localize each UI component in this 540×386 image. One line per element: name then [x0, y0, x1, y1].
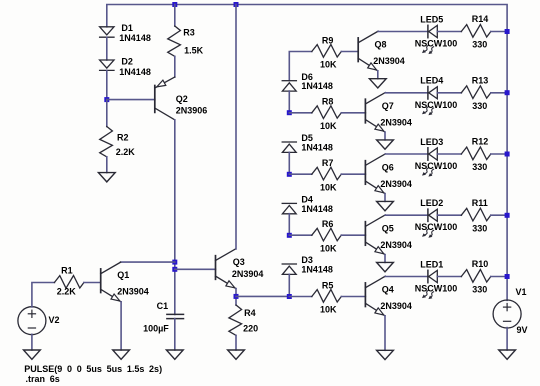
label Q2 value	[176, 106, 208, 116]
label R14	[472, 14, 489, 24]
svg-text:2N3904: 2N3904	[380, 301, 412, 311]
svg-text:R13: R13	[472, 76, 489, 86]
label LED2 value	[415, 222, 458, 232]
svg-text:100µF: 100µF	[143, 324, 169, 334]
label R6	[322, 219, 334, 229]
wire R1 to Q1 base	[84, 282, 101, 284]
svg-text:R3: R3	[183, 28, 195, 38]
label V1	[516, 287, 527, 297]
diode D5	[282, 142, 296, 152]
label R7 value	[320, 182, 337, 192]
svg-text:R9: R9	[322, 35, 334, 45]
label R5	[322, 280, 334, 290]
wire V2 to ground	[31, 334, 33, 350]
ground below Q8	[369, 79, 386, 88]
wire Q2 collector down to C1	[174, 120, 176, 315]
wire LED5 to R14	[437, 31, 461, 33]
svg-text:220: 220	[243, 324, 258, 334]
svg-text:330: 330	[472, 285, 487, 295]
wire Q7 collector to LED4	[385, 92, 428, 94]
svg-text:10K: 10K	[320, 121, 337, 131]
label Q8	[375, 40, 387, 50]
svg-text:330: 330	[472, 162, 487, 172]
wire D1 to D2	[106, 37, 108, 60]
label D4	[301, 195, 313, 205]
label Q8 value	[373, 56, 405, 66]
label R9	[322, 35, 334, 45]
ground below Q6	[377, 201, 394, 210]
svg-text:NSCW100: NSCW100	[415, 100, 458, 110]
node Q1 collector junction	[172, 260, 177, 265]
wire C1 to ground	[174, 319, 176, 350]
label C1	[157, 301, 169, 311]
wire Q1 emitter to ground	[120, 302, 122, 350]
svg-text:2N3904: 2N3904	[380, 117, 412, 127]
wire Q3 emitter to R4	[235, 289, 237, 305]
LED LED2	[422, 209, 437, 238]
wire Q1 collector row	[121, 261, 175, 263]
LED LED1	[422, 270, 437, 299]
wire base row to R7	[289, 173, 312, 175]
transistor Q4	[365, 276, 385, 316]
svg-text:LED3: LED3	[420, 137, 443, 147]
node top rail junction at Q3 collector	[234, 2, 239, 7]
voltage source V1	[493, 300, 521, 328]
resistor R1	[54, 276, 84, 289]
resistor R11	[461, 208, 491, 221]
svg-text:Q7: Q7	[382, 101, 394, 111]
label LED3 value	[415, 161, 458, 171]
label D6	[301, 72, 313, 82]
label Q7 value	[380, 117, 412, 127]
label D5	[301, 133, 313, 143]
resistor R7	[312, 167, 342, 180]
wire Q3 emitter row to diode chain	[236, 295, 289, 297]
wire Q8 emitter to ground	[377, 71, 379, 79]
wire Q5 emitter to ground	[384, 255, 386, 263]
wire Q5 collector to LED2	[385, 214, 428, 216]
diode D6	[282, 81, 296, 91]
label V1 value	[517, 325, 528, 335]
label R11	[472, 198, 488, 208]
label PULSE statement	[24, 364, 162, 374]
label Q1	[117, 270, 129, 280]
node right rail junction LED3 row	[505, 152, 510, 157]
svg-text:330: 330	[472, 223, 487, 233]
label Q5	[382, 223, 394, 233]
svg-text:NSCW100: NSCW100	[415, 39, 458, 49]
resistor R3	[168, 26, 181, 56]
svg-text:330: 330	[472, 40, 487, 50]
resistor R6	[312, 228, 342, 241]
label R12 value	[472, 162, 487, 172]
ground below Q7	[377, 140, 394, 149]
node diode chain junction	[287, 233, 292, 238]
svg-text:R12: R12	[472, 137, 489, 147]
label tran statement	[26, 374, 60, 384]
LED LED5	[422, 25, 437, 54]
svg-text:1N4148: 1N4148	[301, 204, 333, 214]
wire diode chain segment	[288, 91, 290, 113]
label D2	[121, 57, 133, 67]
wire V1 to ground	[506, 328, 508, 350]
LED LED4	[422, 87, 437, 116]
wire Q2 base	[107, 99, 155, 101]
label Q4 value	[380, 301, 412, 311]
label R12	[472, 137, 489, 147]
label D3	[301, 255, 313, 265]
label LED5	[420, 14, 443, 24]
wire Q3 base row	[175, 268, 216, 270]
wire Q3 collector drop	[235, 5, 237, 250]
wire R14 to right rail	[491, 31, 507, 33]
svg-text:Q3: Q3	[233, 257, 245, 267]
svg-text:Q2: Q2	[176, 94, 188, 104]
diode D4	[282, 203, 296, 213]
wire R5 to Q4 base	[341, 296, 365, 298]
node Q3 emitter junction	[234, 294, 239, 299]
wire base row to R8	[289, 112, 312, 114]
svg-text:2N3904: 2N3904	[380, 240, 412, 250]
svg-text:D2: D2	[121, 57, 133, 67]
wire diode chain segment	[288, 214, 290, 236]
label Q3	[233, 257, 245, 267]
label Q1 value	[117, 287, 149, 297]
label V2	[49, 315, 60, 325]
node right rail junction LED4 row	[505, 90, 510, 95]
label Q4	[382, 285, 394, 295]
label D1	[121, 23, 133, 33]
resistor R2	[100, 127, 113, 157]
wire LED3 to R12	[437, 153, 461, 155]
resistor R5	[312, 290, 342, 303]
wire R4 to ground	[235, 335, 237, 350]
svg-text:10K: 10K	[320, 182, 337, 192]
ground below Q4	[377, 350, 394, 359]
svg-text:LED5: LED5	[420, 14, 443, 24]
svg-text:R1: R1	[61, 266, 73, 276]
svg-text:V2: V2	[49, 315, 60, 325]
svg-text:PULSE(9 0 0 5us 5us 1.5s 2s): PULSE(9 0 0 5us 5us 1.5s 2s)	[24, 364, 162, 374]
svg-text:R8: R8	[322, 97, 334, 107]
wire LED1 to R10	[437, 276, 461, 278]
transistor Q3	[216, 249, 237, 289]
transistor Q7	[365, 93, 385, 133]
resistor R13	[461, 86, 491, 99]
transistor Q2	[155, 77, 175, 120]
svg-text:.tran 6s: .tran 6s	[26, 374, 60, 384]
ground below R2	[98, 173, 115, 182]
svg-text:LED2: LED2	[420, 198, 443, 208]
label R9 value	[320, 60, 337, 70]
wire R2 to ground	[106, 157, 108, 173]
ground below Q5	[377, 262, 394, 271]
svg-text:2.2K: 2.2K	[57, 287, 77, 297]
label LED2	[420, 198, 443, 208]
label R5 value	[320, 305, 337, 315]
wire R13 to right rail	[491, 92, 507, 94]
label Q5 value	[380, 240, 412, 250]
wire Q8 collector to LED5	[378, 31, 428, 33]
svg-text:9V: 9V	[517, 325, 528, 335]
svg-text:Q5: Q5	[382, 223, 394, 233]
wire diode chain segment	[288, 152, 290, 174]
svg-text:R6: R6	[322, 219, 334, 229]
label C1 value	[143, 324, 169, 334]
label R4 value	[243, 324, 258, 334]
wire Q4 collector to LED1	[385, 276, 428, 278]
svg-text:2.2K: 2.2K	[116, 147, 136, 157]
label R7	[322, 158, 334, 168]
svg-text:NSCW100: NSCW100	[415, 284, 458, 294]
node Q2 base junction	[104, 97, 109, 102]
resistor R12	[461, 147, 491, 160]
label R11 value	[472, 223, 487, 233]
label LED1 value	[415, 284, 458, 294]
svg-text:330: 330	[472, 101, 487, 111]
label R10 value	[472, 285, 487, 295]
label R10	[472, 259, 489, 269]
wire node to R2	[106, 100, 108, 127]
svg-text:LED4: LED4	[420, 76, 443, 86]
svg-text:10K: 10K	[320, 305, 337, 315]
svg-text:1N4148: 1N4148	[119, 67, 151, 77]
wire R11 to right rail	[491, 214, 507, 216]
label R6 value	[320, 243, 337, 253]
LED LED3	[422, 148, 437, 177]
label LED1	[420, 259, 443, 269]
wire LED4 to R13	[437, 92, 461, 94]
label D2 value	[119, 67, 151, 77]
wire base row to R6	[289, 234, 312, 236]
ground below R4	[228, 350, 245, 359]
svg-text:2N3904: 2N3904	[117, 287, 149, 297]
svg-text:10K: 10K	[320, 243, 337, 253]
label R1 value	[57, 287, 77, 297]
wire R3 to Q2 emitter	[174, 56, 176, 77]
wire top rail to R3	[174, 5, 176, 27]
wire diode chain top segment	[289, 52, 312, 81]
svg-text:2N3904: 2N3904	[373, 56, 405, 66]
wire D2 to Q2 base node	[106, 70, 108, 99]
wire LED2 to R11	[437, 214, 461, 216]
ground below V2	[24, 350, 41, 359]
wire R7 to Q6 base	[341, 173, 365, 175]
label R2	[117, 133, 129, 143]
wire R12 to right rail	[491, 153, 507, 155]
label D6 value	[301, 81, 333, 91]
node diode chain junction	[287, 172, 292, 177]
svg-text:R2: R2	[117, 133, 129, 143]
svg-text:1N4148: 1N4148	[119, 33, 151, 43]
resistor R14	[461, 25, 491, 38]
label R13	[472, 76, 489, 86]
label Q3 value	[232, 269, 264, 279]
svg-text:Q4: Q4	[382, 285, 394, 295]
voltage source V2	[18, 307, 46, 335]
label Q6	[382, 162, 394, 172]
svg-text:10K: 10K	[320, 60, 337, 70]
node Q3 base junction	[172, 267, 177, 272]
node top rail junction at R3	[172, 2, 177, 7]
capacitor C1	[167, 314, 184, 318]
svg-text:1N4148: 1N4148	[301, 81, 333, 91]
wire V2 to R1	[32, 283, 55, 307]
node right rail junction LED5 row	[505, 29, 510, 34]
wire diode chain segment	[288, 274, 290, 296]
svg-text:Q8: Q8	[375, 40, 387, 50]
node right rail junction LED1 row	[505, 274, 510, 279]
svg-text:R4: R4	[244, 308, 256, 318]
svg-text:NSCW100: NSCW100	[415, 161, 458, 171]
resistor R8	[312, 106, 342, 119]
svg-text:R5: R5	[322, 280, 334, 290]
label Q6 value	[380, 179, 412, 189]
diode D1	[100, 27, 114, 37]
transistor Q1	[101, 262, 121, 302]
transistor Q6	[365, 154, 385, 194]
resistor R9	[312, 45, 342, 58]
resistor R4	[229, 305, 242, 335]
svg-text:1N4148: 1N4148	[301, 143, 333, 153]
label R8 value	[320, 121, 337, 131]
label LED5 value	[415, 39, 458, 49]
svg-text:R14: R14	[472, 14, 489, 24]
wire top rail and right rail	[107, 5, 507, 301]
label D4 value	[301, 204, 333, 214]
svg-text:C1: C1	[157, 301, 169, 311]
label Q2	[176, 94, 188, 104]
label Q7	[382, 101, 394, 111]
node diode chain junction	[287, 294, 292, 299]
wire Q6 collector to LED3	[385, 153, 428, 155]
wire R10 to right rail	[491, 276, 507, 278]
wire R6 to Q5 base	[341, 234, 365, 236]
node diode chain junction	[287, 110, 292, 115]
svg-text:LED1: LED1	[420, 259, 443, 269]
svg-text:V1: V1	[516, 287, 527, 297]
label R13 value	[472, 101, 487, 111]
resistor R10	[461, 270, 491, 283]
label R4	[244, 308, 256, 318]
label LED4 value	[415, 100, 458, 110]
label R2 value	[116, 147, 136, 157]
svg-text:1N4148: 1N4148	[301, 265, 333, 275]
svg-text:R11: R11	[472, 198, 488, 208]
svg-text:2N3906: 2N3906	[176, 106, 208, 116]
label LED4	[420, 76, 443, 86]
label R14 value	[472, 40, 487, 50]
label D3 value	[301, 265, 333, 275]
label R3	[183, 28, 195, 38]
node right rail junction LED2 row	[505, 213, 510, 218]
label R8	[322, 97, 334, 107]
label R3 value	[184, 46, 204, 56]
label LED3	[420, 137, 443, 147]
diode D3	[282, 264, 296, 274]
ground below Q1	[113, 350, 130, 359]
wire R8 to Q7 base	[341, 112, 365, 114]
wire Q7 emitter to ground	[384, 132, 386, 140]
svg-text:D1: D1	[121, 23, 133, 33]
wire R9 to Q8 base	[341, 51, 358, 53]
label R1	[61, 266, 73, 276]
transistor Q8	[358, 31, 378, 71]
svg-text:2N3904: 2N3904	[232, 269, 264, 279]
wire Q4 emitter to ground	[384, 316, 386, 351]
svg-text:2N3904: 2N3904	[380, 179, 412, 189]
svg-text:Q6: Q6	[382, 162, 394, 172]
label D1 value	[119, 33, 151, 43]
wire Q6 emitter to ground	[384, 194, 386, 202]
ground below V1	[499, 350, 516, 359]
diode D2	[100, 60, 114, 70]
wire base row to R5	[289, 296, 312, 298]
svg-text:R10: R10	[472, 259, 489, 269]
transistor Q5	[365, 215, 385, 255]
ground below C1	[166, 350, 183, 359]
label D5 value	[301, 143, 333, 153]
svg-text:NSCW100: NSCW100	[415, 222, 458, 232]
svg-text:1.5K: 1.5K	[184, 46, 204, 56]
svg-text:R7: R7	[322, 158, 334, 168]
svg-text:Q1: Q1	[117, 270, 129, 280]
